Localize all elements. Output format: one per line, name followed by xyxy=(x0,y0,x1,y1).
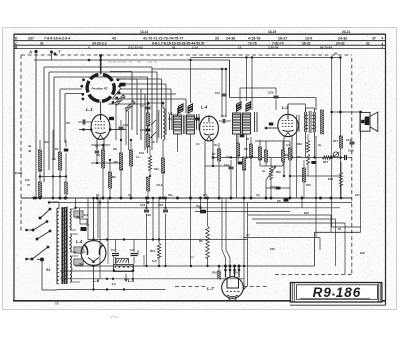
IF2 coil right xyxy=(243,113,251,134)
svg-text:C4: C4 xyxy=(140,104,144,108)
value label 8+8 xyxy=(152,259,157,263)
wire vertical from A xyxy=(35,60,37,198)
svg-text:52: 52 xyxy=(152,140,155,144)
IF2 coil left xyxy=(233,113,241,134)
IF transformer 1 cores xyxy=(178,103,193,114)
capacitor C21 xyxy=(146,203,168,217)
value label 4a xyxy=(262,169,265,173)
capacitor C17 label xyxy=(221,114,227,118)
wire y166 mid xyxy=(205,165,219,167)
tube L3 legs xyxy=(283,104,306,177)
osc labels xyxy=(154,111,173,187)
value label 2M xyxy=(113,147,117,151)
switch wire right y89 xyxy=(120,89,171,140)
svg-text:18-19: 18-19 xyxy=(268,30,276,34)
svg-text:12: 12 xyxy=(238,45,242,49)
svg-text:1-14: 1-14 xyxy=(192,45,198,49)
vertical x75.5 xyxy=(74,198,76,209)
osc top wires xyxy=(148,102,163,104)
capacitor C11 xyxy=(215,91,227,96)
coil L6 label xyxy=(93,278,100,283)
svg-text:4: 4 xyxy=(382,37,384,41)
bus y278.8 xyxy=(60,278,244,280)
svg-text:6,3: 6,3 xyxy=(84,213,88,217)
svg-text:L.7: L.7 xyxy=(207,286,214,291)
trimmer C2 xyxy=(130,240,138,265)
tube L1 right lead xyxy=(109,128,126,131)
svg-text:E29: E29 xyxy=(360,251,365,255)
svg-text:C13: C13 xyxy=(255,139,260,143)
resistor osc col low xyxy=(146,177,149,199)
loudspeaker wires xyxy=(360,131,362,140)
terminal T xyxy=(50,49,61,60)
IF2 trimmer caps xyxy=(240,112,257,137)
bottom mark 10 xyxy=(55,302,60,306)
frame top line 3 xyxy=(14,44,386,46)
long vertical x360 xyxy=(359,111,362,233)
vertical x108 L5 col xyxy=(107,198,109,264)
tube L7 base nub xyxy=(229,298,237,301)
resistor cluster b xyxy=(264,150,267,162)
heater bus y289.5 xyxy=(57,288,166,290)
switch wire right y84 xyxy=(116,79,166,135)
svg-text:E28: E28 xyxy=(328,177,333,181)
svg-text:R6: R6 xyxy=(199,239,203,243)
vertical x244 to L7 xyxy=(243,198,245,290)
svg-text:26-31: 26-31 xyxy=(302,42,311,46)
svg-text:1B: 1B xyxy=(96,193,99,197)
resistor right x341 xyxy=(339,162,342,199)
capacitor C12 xyxy=(119,120,129,140)
vertical x100 L5 col xyxy=(99,198,101,275)
bus y232 xyxy=(315,231,361,233)
wire right bus y157 xyxy=(212,156,344,159)
value label C13 xyxy=(255,139,260,143)
resistor under xfmr xyxy=(302,160,305,198)
title band row 2 text xyxy=(40,42,370,46)
transformer secondary low xyxy=(70,256,72,282)
capacitor C15 xyxy=(270,185,281,189)
vertical x79.5 xyxy=(79,208,81,219)
title text R9 186 xyxy=(313,285,362,300)
svg-text:R7: R7 xyxy=(212,152,216,156)
svg-text:7-8-9-10-6-2-3-4: 7-8-9-10-6-2-3-4 xyxy=(44,36,70,40)
tube L7 xyxy=(222,277,244,299)
value label 50 xyxy=(246,137,249,141)
vertical x146.5 xyxy=(146,198,148,266)
capacitor C10 blob xyxy=(140,126,150,132)
title box left rules xyxy=(292,283,294,302)
svg-text:31: 31 xyxy=(40,42,44,46)
junction dots under L1 xyxy=(96,139,132,164)
IF2 core lines xyxy=(241,113,243,134)
left junction dots xyxy=(35,197,68,200)
label E28 xyxy=(328,177,333,181)
node A lead xyxy=(35,52,37,61)
svg-text:32: 32 xyxy=(366,42,370,46)
dial lamp dots xyxy=(100,275,114,280)
svg-text:50: 50 xyxy=(246,137,249,141)
vertical x302 xyxy=(301,198,303,208)
tube L4 label xyxy=(76,239,83,244)
resistor R9 xyxy=(281,150,289,162)
output transformer box wires xyxy=(306,108,316,159)
mid cluster h wires xyxy=(219,141,290,166)
mains lead to transformer xyxy=(42,260,57,291)
resistor R7 xyxy=(212,149,221,161)
svg-text:L.4: L.4 xyxy=(76,239,83,244)
bottom stray mark xyxy=(110,317,118,319)
wire y188 right xyxy=(266,187,290,189)
capacitor blob right of switch xyxy=(113,83,126,98)
wire y211 mid xyxy=(195,211,290,213)
switch wire right y99 xyxy=(108,99,186,113)
dashed chassis box bottom right xyxy=(275,274,352,276)
long vertical x331 xyxy=(330,52,360,228)
svg-text:237: 237 xyxy=(28,36,34,40)
svg-text:34-33-3.3: 34-33-3.3 xyxy=(92,42,107,46)
wire y176 left xyxy=(40,175,67,177)
resistor R12b xyxy=(306,154,309,176)
svg-text:C2: C2 xyxy=(130,248,134,252)
value label R15 xyxy=(306,183,311,187)
svg-text:52a: 52a xyxy=(168,193,173,197)
svg-text:C12: C12 xyxy=(123,123,129,127)
curved wire pair to L7 xyxy=(222,198,230,266)
svg-text:C4: C4 xyxy=(168,117,172,121)
svg-text:23: 23 xyxy=(215,36,219,40)
vertical x207.5 R6 xyxy=(199,198,209,266)
value label 1B xyxy=(96,193,99,197)
dashed line below L7 right xyxy=(243,286,268,288)
title band row letter D xyxy=(15,37,18,41)
value label 49 xyxy=(128,193,131,197)
svg-text:E25: E25 xyxy=(304,211,309,215)
value label 0,1 xyxy=(196,142,200,146)
wire loop y77 xyxy=(54,77,148,160)
svg-text:R.3: R.3 xyxy=(203,193,208,197)
title band row letter C xyxy=(15,42,18,46)
mid cluster wires xyxy=(219,134,290,198)
value label C4 xyxy=(168,117,172,121)
svg-text:C6: C6 xyxy=(66,121,70,125)
wire top y69 xyxy=(152,68,226,70)
trimmer C1 xyxy=(111,240,119,265)
tube L3 label xyxy=(282,105,289,110)
resistor R16 xyxy=(218,265,221,280)
wire loop y93 left xyxy=(65,94,82,144)
svg-text:C19: C19 xyxy=(346,138,352,142)
svg-text:72-76: 72-76 xyxy=(248,42,257,46)
volume pot R10 xyxy=(266,166,281,180)
wire loop y89 left xyxy=(60,89,82,150)
tube L4 second top stub xyxy=(97,198,99,238)
switch wire right y94 xyxy=(117,94,176,150)
value label E25 xyxy=(304,211,309,215)
svg-text:R16: R16 xyxy=(212,271,217,275)
capacitor C20 xyxy=(345,149,354,161)
svg-text:10.: 10. xyxy=(55,302,60,306)
transformer sec leads xyxy=(70,209,80,282)
IF1 trimmer caps xyxy=(170,114,200,130)
rotary band switch S xyxy=(80,75,121,104)
wire box around IF2 xyxy=(230,60,317,110)
value label 50 xyxy=(95,144,98,148)
wire loop y72 xyxy=(49,72,157,170)
capacitor C4 xyxy=(140,103,151,109)
resistor R17 xyxy=(322,156,333,164)
tube L1 legs xyxy=(97,139,105,164)
cap small under L1 xyxy=(95,145,99,163)
speaker coil bar xyxy=(361,117,369,126)
dashed chassis box left xyxy=(20,55,22,233)
value label 36 xyxy=(86,223,89,227)
wire x3145 down xyxy=(314,232,316,266)
bus y266 xyxy=(75,265,315,267)
title box inner xyxy=(297,285,378,300)
diagonal resistor 2 under switch xyxy=(124,101,135,112)
transformer secondary S2 xyxy=(70,209,80,230)
svg-text:R14: R14 xyxy=(333,139,338,143)
bleed-through faint text xyxy=(108,60,157,64)
tube L4 top lead xyxy=(92,197,95,241)
value label E26 xyxy=(270,247,275,251)
svg-text:20-21: 20-21 xyxy=(342,30,350,34)
osc junction dots xyxy=(147,102,165,200)
vertical x191 xyxy=(190,198,192,266)
resistor osc col upper xyxy=(146,110,149,126)
transformer sec tap boxes xyxy=(74,211,88,265)
resistor left upper xyxy=(38,140,41,171)
wire top y57.5 xyxy=(191,57,341,59)
svg-text:26-27: 26-27 xyxy=(278,36,287,40)
output transformer secondary coil xyxy=(313,108,316,138)
svg-text:L.6: L.6 xyxy=(93,278,100,283)
title band row letter B xyxy=(15,46,18,50)
bus y202.5 xyxy=(48,201,352,203)
resistor R8 xyxy=(244,144,253,157)
tube L4 side labels xyxy=(82,263,84,266)
capacitor C19 xyxy=(346,138,355,144)
vertical x316 xyxy=(315,136,317,238)
bus y219 xyxy=(252,219,336,266)
title band row 0 text xyxy=(140,30,350,34)
frame bottom border xyxy=(13,300,386,302)
osc coil winding xyxy=(163,103,165,150)
bus y271 xyxy=(60,270,133,272)
svg-text:R11: R11 xyxy=(297,155,302,159)
vertical x88 xyxy=(87,198,89,240)
svg-text:· 1,5: · 1,5 xyxy=(110,282,116,286)
svg-text:R9▪186: R9▪186 xyxy=(313,285,362,300)
tube L2 grid cap blob xyxy=(195,118,200,121)
value label C9 xyxy=(256,193,260,197)
svg-text:E26: E26 xyxy=(270,247,275,251)
tone pot xyxy=(333,152,339,157)
value label 49a xyxy=(44,140,49,144)
title box right rules xyxy=(378,283,380,302)
svg-text:R13: R13 xyxy=(150,249,156,253)
rotary switch label xyxy=(92,86,108,90)
wire loop y67 xyxy=(44,67,152,182)
capacitor C16 xyxy=(140,203,149,212)
svg-text:41-70-71-72-73-74-75-77: 41-70-71-72-73-74-75-77 xyxy=(143,36,183,40)
bus y207.8 xyxy=(75,207,340,209)
svg-text:49: 49 xyxy=(28,149,32,153)
output transformer primary coil xyxy=(304,108,307,140)
vertical x113 L5 xyxy=(114,250,145,266)
svg-text:S1: S1 xyxy=(46,268,50,272)
resistor R14 xyxy=(333,136,343,148)
value label T.9 xyxy=(226,155,230,159)
svg-text:4a: 4a xyxy=(28,144,32,148)
bus y237 xyxy=(243,238,320,251)
svg-text:L.4: L.4 xyxy=(201,105,208,110)
tube L1 anode blob xyxy=(109,117,114,120)
svg-text:im im rm im m im: im im rm im m im um m xyxy=(108,60,157,64)
svg-text:4.6.A: 4.6.A xyxy=(156,183,163,187)
resistor 1B xyxy=(96,145,105,198)
svg-text:1B: 1B xyxy=(55,147,58,151)
long vertical x340 xyxy=(339,56,342,198)
wire y176 right xyxy=(289,175,341,177)
wire x53 xyxy=(52,130,54,198)
value label 52 xyxy=(152,140,155,144)
resistor left x66 lower xyxy=(65,177,68,199)
svg-text:3-11-15-43: 3-11-15-43 xyxy=(128,45,143,49)
svg-text:S2: S2 xyxy=(76,216,80,220)
transformer secondary mid xyxy=(70,234,71,252)
svg-text:24-32: 24-32 xyxy=(338,36,347,40)
svg-text:Position FE: Position FE xyxy=(92,86,108,90)
value label 0,5 xyxy=(286,143,290,147)
title band row 1 text xyxy=(28,36,376,40)
antenna terminal A xyxy=(28,50,38,55)
svg-text:4-15-78: 4-15-78 xyxy=(248,36,260,40)
svg-text:37: 37 xyxy=(27,183,30,187)
bus y239.5 xyxy=(88,238,248,240)
svg-text:C11: C11 xyxy=(215,91,220,95)
tube L1 grid lead xyxy=(79,128,92,131)
svg-text:R15: R15 xyxy=(306,183,311,187)
IF1 leads xyxy=(178,60,191,198)
svg-text:44: 44 xyxy=(334,52,338,56)
svg-text:C2b: C2b xyxy=(233,271,238,275)
capacitor C18 xyxy=(196,204,206,213)
coil L5 core xyxy=(116,259,129,264)
IF1 coil right xyxy=(187,115,195,134)
frame bottom border 2 xyxy=(290,304,386,306)
vertical x153 xyxy=(152,197,155,241)
resistor osc zigzag xyxy=(148,147,151,176)
transformer label S1 xyxy=(46,268,50,272)
resistor cluster a xyxy=(258,147,261,160)
capacitor C22 xyxy=(274,88,279,110)
vertical x296 xyxy=(297,115,300,198)
svg-text:4a: 4a xyxy=(262,169,265,173)
resistor R12 xyxy=(297,134,310,152)
vertical x247.5 xyxy=(247,203,249,216)
main bus y198 xyxy=(21,197,352,200)
wire right of L7 xyxy=(244,215,248,289)
svg-text:C16: C16 xyxy=(140,203,146,207)
value label E27 xyxy=(355,193,360,197)
svg-text:52a: 52a xyxy=(154,167,159,171)
tube L7 post labels xyxy=(212,271,238,275)
wire speaker top xyxy=(330,111,360,114)
dashed chassis box top xyxy=(21,54,352,56)
resistor R11 xyxy=(288,148,291,160)
svg-text:C14: C14 xyxy=(224,163,229,167)
speaker frame xyxy=(360,112,370,131)
value label R4 xyxy=(214,143,218,147)
capacitor C10 blob xyxy=(311,161,316,164)
vertical x200.5 xyxy=(200,198,202,210)
resistor R cluster mid xyxy=(236,143,245,170)
svg-text:4.7: 4.7 xyxy=(246,233,250,237)
frame top line 1 xyxy=(14,33,386,35)
wire loop y60 xyxy=(34,59,230,62)
transformer primary winding xyxy=(57,208,59,284)
svg-text:43: 43 xyxy=(172,45,176,49)
svg-text:A: A xyxy=(28,50,32,55)
resistor R5 xyxy=(114,140,123,198)
svg-text:Erdkl.: Erdkl. xyxy=(15,171,23,175)
left col labels xyxy=(25,144,32,187)
wire pair above L2 xyxy=(221,68,227,117)
svg-text:R5: R5 xyxy=(114,160,118,164)
frame top line 2 xyxy=(14,40,386,42)
wire L3 top xyxy=(240,88,276,101)
IF2 bottom leads xyxy=(237,134,248,198)
svg-text:0,1: 0,1 xyxy=(196,142,200,146)
svg-text:R4: R4 xyxy=(214,143,218,147)
svg-text:0,1: 0,1 xyxy=(136,155,140,159)
capacitor C22 label xyxy=(268,91,274,95)
pot bottom wire xyxy=(265,180,267,198)
svg-text:E27: E27 xyxy=(355,193,360,197)
value label R.3 xyxy=(203,193,208,197)
value label 0,1 xyxy=(136,155,140,159)
vertical wires right of L1 xyxy=(116,103,129,150)
svg-text:43: 43 xyxy=(112,36,116,40)
small box left of L4 xyxy=(80,219,87,231)
osc lower resistor xyxy=(161,150,164,198)
svg-text:49a: 49a xyxy=(44,140,49,144)
svg-text:37: 37 xyxy=(372,36,376,40)
resistor mid col xyxy=(129,140,132,198)
capacitor C17 xyxy=(219,119,232,123)
ground terminal label xyxy=(15,171,23,175)
transformer tap label 36 xyxy=(79,262,82,266)
svg-text:0,1: 0,1 xyxy=(52,157,56,161)
resistor left x60 xyxy=(55,140,62,198)
svg-text:R17: R17 xyxy=(323,160,329,164)
svg-text:C10: C10 xyxy=(140,128,145,132)
svg-text:0,1: 0,1 xyxy=(190,255,194,259)
tube L2 label xyxy=(201,105,208,110)
osc coil tap arrows xyxy=(150,120,156,138)
resistor left lower xyxy=(38,171,41,198)
svg-text:C13: C13 xyxy=(139,151,144,155)
capacitor C13 label xyxy=(139,151,144,155)
bus y223 xyxy=(256,223,345,275)
dashed chassis box right xyxy=(351,58,353,275)
vertical x159 R13 xyxy=(150,198,161,266)
tube L2 legs xyxy=(204,140,214,199)
capacitor C6 xyxy=(66,120,91,126)
frame left border xyxy=(13,34,15,301)
